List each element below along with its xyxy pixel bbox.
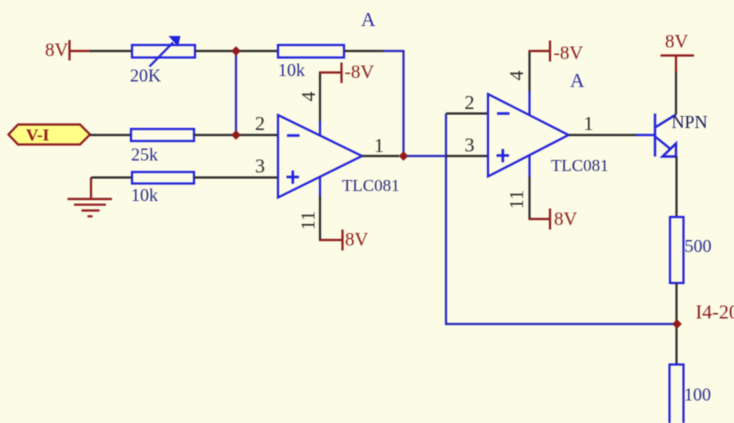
wire to op2 pin2: [446, 112, 489, 114]
svg-text:10k: 10k: [278, 60, 305, 80]
wire node to feedback column (blue): [404, 155, 447, 157]
pin 4 wire: [319, 120, 321, 136]
node junction V-I row: [231, 130, 241, 140]
svg-text:1: 1: [584, 113, 594, 135]
wire 10k to op-amp pin3: [194, 176, 279, 178]
wire 10k to corner: [344, 50, 384, 52]
svg-text:8V: 8V: [665, 32, 689, 53]
svg-text:20K: 20K: [130, 66, 161, 86]
resistor 500: [670, 217, 684, 283]
svg-text:4: 4: [506, 71, 528, 81]
power port 8V (left): [70, 40, 92, 61]
svg-text:TLC081: TLC081: [551, 156, 609, 175]
svg-text:11: 11: [298, 211, 320, 230]
svg-text:2: 2: [255, 113, 265, 135]
potentiometer R 20K: [132, 36, 195, 67]
resistor 25k: [131, 129, 194, 141]
svg-text:4: 4: [298, 92, 320, 102]
wire 8V to 20K: [90, 50, 133, 52]
wire 500 to node: [675, 283, 677, 325]
svg-text:NPN: NPN: [672, 112, 708, 132]
power port -8V (op2): [529, 41, 551, 62]
svg-text:8V: 8V: [554, 209, 578, 230]
wire 25k to node: [194, 134, 236, 136]
power port -8V (op1): [319, 63, 342, 84]
wire ground to 10k: [91, 176, 133, 178]
wire blue corner: [383, 51, 404, 156]
wire node to op-amp pin2: [236, 134, 279, 136]
resistor 10k feedback: [278, 45, 344, 58]
svg-text:A: A: [361, 9, 376, 31]
pin 11 wire op2: [528, 156, 530, 178]
svg-text:100: 100: [684, 385, 711, 405]
wire node to 100: [675, 324, 677, 365]
node junction output: [399, 151, 409, 161]
feedback bottom run (blue): [445, 323, 677, 325]
svg-text:8V: 8V: [45, 40, 69, 61]
emitter wire: [675, 156, 677, 218]
wire 20K to node: [195, 50, 236, 52]
resistor 100: [670, 365, 684, 423]
svg-text:11: 11: [506, 190, 528, 209]
svg-text:-8V: -8V: [345, 62, 375, 83]
feedback column (blue): [445, 114, 447, 326]
op-amp U2 TLC081: [488, 94, 569, 177]
svg-text:8V: 8V: [345, 230, 369, 251]
svg-text:10k: 10k: [131, 185, 158, 205]
pin 4 wire op2: [528, 90, 530, 115]
output wire op2: [569, 134, 638, 136]
svg-text:3: 3: [255, 156, 265, 178]
node junction top: [231, 46, 241, 56]
svg-text:A: A: [570, 70, 585, 92]
pin 11 wire: [319, 176, 321, 197]
power port 8V (op2 bottom): [529, 209, 551, 230]
wire vertical node-node: [235, 51, 237, 135]
wire node to 10k feedback: [236, 50, 279, 52]
transistor Q NPN: [655, 114, 676, 157]
svg-text:I4-20: I4-20: [696, 302, 734, 324]
svg-text:-8V: -8V: [554, 43, 584, 64]
node junction I4-20: [672, 319, 682, 329]
port V-I: [9, 125, 91, 145]
power port 8V (op1 bottom): [319, 230, 343, 251]
svg-text:1: 1: [374, 135, 384, 157]
power port 8V (transistor): [661, 56, 695, 73]
svg-text:2: 2: [465, 92, 475, 114]
base wire (blue): [636, 134, 655, 136]
svg-text:500: 500: [685, 236, 712, 256]
svg-text:TLC081: TLC081: [342, 176, 400, 195]
svg-text:3: 3: [465, 135, 475, 157]
svg-text:V-I: V-I: [26, 126, 50, 145]
wire to op2 pin3: [446, 155, 489, 157]
output wire pin1: [362, 155, 399, 157]
resistor 10k (bottom): [132, 172, 194, 184]
op-amp U1 TLC081: [278, 115, 362, 198]
ground: [68, 178, 113, 217]
wire V-I to 25k: [90, 134, 132, 136]
svg-text:25k: 25k: [131, 145, 158, 165]
collector wire: [675, 71, 677, 115]
